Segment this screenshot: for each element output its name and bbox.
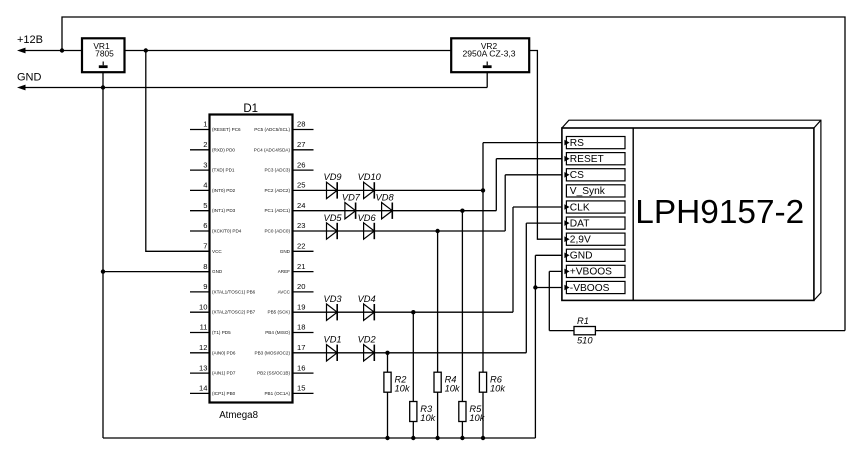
svg-text:VD4: VD4 [358,294,376,304]
svg-text:CS: CS [570,170,584,181]
svg-text:17: 17 [297,343,305,352]
svg-text:RS: RS [570,138,584,149]
svg-text:23: 23 [297,221,305,230]
svg-text:AREF: AREF [278,269,290,274]
svg-text:VD5: VD5 [324,213,343,223]
svg-text:PC1 (ADC1): PC1 (ADC1) [264,208,290,213]
svg-text:19: 19 [297,302,305,311]
svg-text:21: 21 [297,262,305,271]
svg-text:15: 15 [297,384,305,393]
svg-text:28: 28 [297,120,305,129]
svg-text:-VBOOS: -VBOOS [570,283,610,294]
svg-text:12: 12 [199,343,207,352]
svg-text:+12B: +12B [17,34,43,46]
svg-text:22: 22 [297,242,305,251]
svg-text:(XCK/T0) PD4: (XCK/T0) PD4 [212,229,242,234]
svg-text:DAT: DAT [570,218,590,229]
svg-text:GND: GND [280,249,291,254]
svg-text:VCC: VCC [212,249,222,254]
svg-text:7: 7 [203,242,207,251]
svg-text:VD9: VD9 [324,172,342,182]
svg-text:PB2 (SS/OC1B): PB2 (SS/OC1B) [257,371,290,376]
svg-text:3: 3 [203,160,207,169]
svg-text:2: 2 [203,140,207,149]
svg-text:LPH9157-2: LPH9157-2 [635,194,804,231]
svg-text:VD1: VD1 [324,335,342,345]
svg-text:(AIN0) PD6: (AIN0) PD6 [212,350,236,355]
svg-text:VD6: VD6 [358,213,377,223]
svg-text:PB3 (MOSI/OC2): PB3 (MOSI/OC2) [255,350,291,355]
svg-text:PB5 (SCK): PB5 (SCK) [268,310,291,315]
svg-text:GND: GND [212,269,223,274]
svg-text:PB4 (MISO): PB4 (MISO) [265,330,290,335]
svg-text:(AIN1) PD7: (AIN1) PD7 [212,371,236,376]
svg-text:10k: 10k [395,384,411,394]
svg-text:+VBOOS: +VBOOS [570,267,612,278]
svg-text:R1: R1 [577,316,589,326]
svg-text:20: 20 [297,282,305,291]
svg-text:16: 16 [297,363,305,372]
svg-text:(RESET) PC6: (RESET) PC6 [212,127,241,132]
svg-text:6: 6 [203,221,207,230]
svg-text:10k: 10k [469,413,485,423]
svg-text:10: 10 [199,302,207,311]
svg-text:PC5 (ADC5/SCL): PC5 (ADC5/SCL) [254,127,290,132]
svg-text:RESET: RESET [570,154,604,165]
svg-text:PC3 (ADC3): PC3 (ADC3) [264,168,290,173]
svg-text:(INT0) PD2: (INT0) PD2 [212,188,236,193]
svg-text:VD2: VD2 [358,335,377,345]
svg-text:VD7: VD7 [342,193,361,203]
svg-text:VD3: VD3 [324,294,343,304]
svg-text:PC4 (ADC4/SDA): PC4 (ADC4/SDA) [254,147,291,152]
svg-text:2950A CZ-3,3: 2950A CZ-3,3 [462,49,515,59]
svg-text:VD10: VD10 [358,172,382,182]
svg-text:CLK: CLK [570,202,590,213]
svg-text:(XTAL2/TOSC2) PB7: (XTAL2/TOSC2) PB7 [212,310,256,315]
svg-text:(INT1) PD3: (INT1) PD3 [212,208,236,213]
svg-text:9: 9 [203,282,207,291]
svg-text:(TXD) PD1: (TXD) PD1 [212,168,235,173]
svg-text:(ICP1) PB0: (ICP1) PB0 [212,391,236,396]
svg-text:26: 26 [297,160,305,169]
svg-text:10k: 10k [490,384,506,394]
svg-text:(XTAL1/TOSC1) PB6: (XTAL1/TOSC1) PB6 [212,289,256,294]
svg-text:V_Synk: V_Synk [570,186,606,197]
svg-text:11: 11 [200,323,208,332]
svg-text:4: 4 [203,181,207,190]
svg-text:8: 8 [203,262,207,271]
svg-text:Atmega8: Atmega8 [219,410,258,421]
svg-text:1: 1 [203,120,207,129]
svg-text:27: 27 [297,140,305,149]
svg-text:(RXD) PD0: (RXD) PD0 [212,147,235,152]
svg-text:18: 18 [297,323,305,332]
svg-text:PB1 (OC1A): PB1 (OC1A) [264,391,290,396]
svg-text:AVCC: AVCC [278,289,291,294]
svg-text:510: 510 [577,336,593,346]
svg-text:24: 24 [297,201,305,210]
svg-text:VD8: VD8 [376,193,395,203]
svg-text:13: 13 [199,363,207,372]
svg-text:2,9V: 2,9V [570,235,591,246]
svg-text:PC2 (ADC2): PC2 (ADC2) [264,188,290,193]
svg-text:5: 5 [203,201,207,210]
svg-text:25: 25 [297,181,305,190]
svg-text:10k: 10k [420,413,436,423]
svg-text:D1: D1 [243,103,258,115]
svg-text:GND: GND [17,72,42,84]
svg-text:14: 14 [199,384,207,393]
svg-text:7805: 7805 [95,49,114,59]
svg-text:PC0 (ADC0): PC0 (ADC0) [264,229,290,234]
svg-text:(T1) PD5: (T1) PD5 [212,330,231,335]
svg-text:GND: GND [570,251,593,262]
svg-text:10k: 10k [445,384,461,394]
